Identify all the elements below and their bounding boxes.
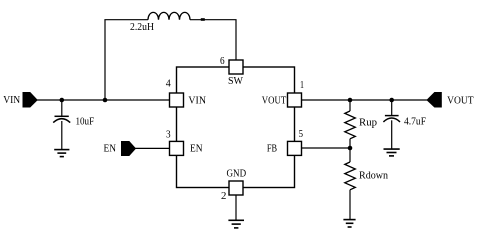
port flag EN xyxy=(121,141,136,156)
pin 6 SW box xyxy=(229,60,243,74)
svg-text:VIN: VIN xyxy=(188,95,206,106)
svg-text:VOUT: VOUT xyxy=(262,95,287,106)
wire inductor to SW corner xyxy=(190,20,236,60)
svg-text:1: 1 xyxy=(300,80,304,91)
pin 3 EN box xyxy=(170,141,184,155)
svg-text:6: 6 xyxy=(220,56,225,67)
ground C2 xyxy=(384,149,400,156)
svg-text:SW: SW xyxy=(228,76,243,87)
svg-text:3: 3 xyxy=(166,129,171,140)
node junction dot FB divider xyxy=(348,146,353,151)
svg-text:10uF: 10uF xyxy=(76,116,95,127)
wire EN to pin 3 xyxy=(135,147,169,149)
port flag VOUT xyxy=(427,92,442,108)
node junction dot L1 left xyxy=(103,98,108,103)
wire VIN rail xyxy=(37,99,170,101)
resistor Rup xyxy=(345,100,356,148)
wire L1 left vertical xyxy=(104,20,106,100)
ground C1 xyxy=(54,150,69,157)
wire GND pin to ground xyxy=(235,195,237,220)
ground Rdown xyxy=(343,220,355,227)
pin 1 VOUT box xyxy=(288,93,302,107)
svg-text:VIN: VIN xyxy=(3,95,20,106)
svg-text:4: 4 xyxy=(166,79,171,90)
svg-text:2: 2 xyxy=(221,191,226,202)
svg-text:FB: FB xyxy=(267,144,277,155)
svg-text:GND: GND xyxy=(227,168,247,179)
wire FB to divider xyxy=(302,147,351,149)
svg-text:Rdown: Rdown xyxy=(359,171,389,182)
pin 2 GND box xyxy=(229,181,243,195)
ground IC GND xyxy=(228,220,244,228)
node junction dot C1 xyxy=(60,98,65,103)
capacitor C1 10uF xyxy=(53,100,70,149)
svg-text:2.2uH: 2.2uH xyxy=(130,22,154,33)
node inductor right terminal tick xyxy=(201,18,205,21)
svg-text:5: 5 xyxy=(299,129,303,140)
wire VOUT rail xyxy=(302,99,428,101)
svg-text:EN: EN xyxy=(104,144,117,155)
svg-text:4.7uF: 4.7uF xyxy=(404,116,426,127)
resistor Rdown xyxy=(345,148,356,220)
capacitor C2 4.7uF xyxy=(383,100,400,149)
svg-text:VOUT: VOUT xyxy=(447,96,474,107)
inductor L1 xyxy=(148,12,190,19)
port flag VIN xyxy=(23,92,38,108)
wire top left to inductor xyxy=(104,19,148,21)
pin 4 VIN box xyxy=(170,93,184,107)
pin 5 FB box xyxy=(288,141,302,155)
svg-text:EN: EN xyxy=(190,144,203,155)
svg-text:Rup: Rup xyxy=(359,118,377,129)
op-amp IC U1 body xyxy=(177,67,295,188)
node junction dot C2 xyxy=(389,98,394,103)
node junction dot Rup top xyxy=(348,98,353,103)
